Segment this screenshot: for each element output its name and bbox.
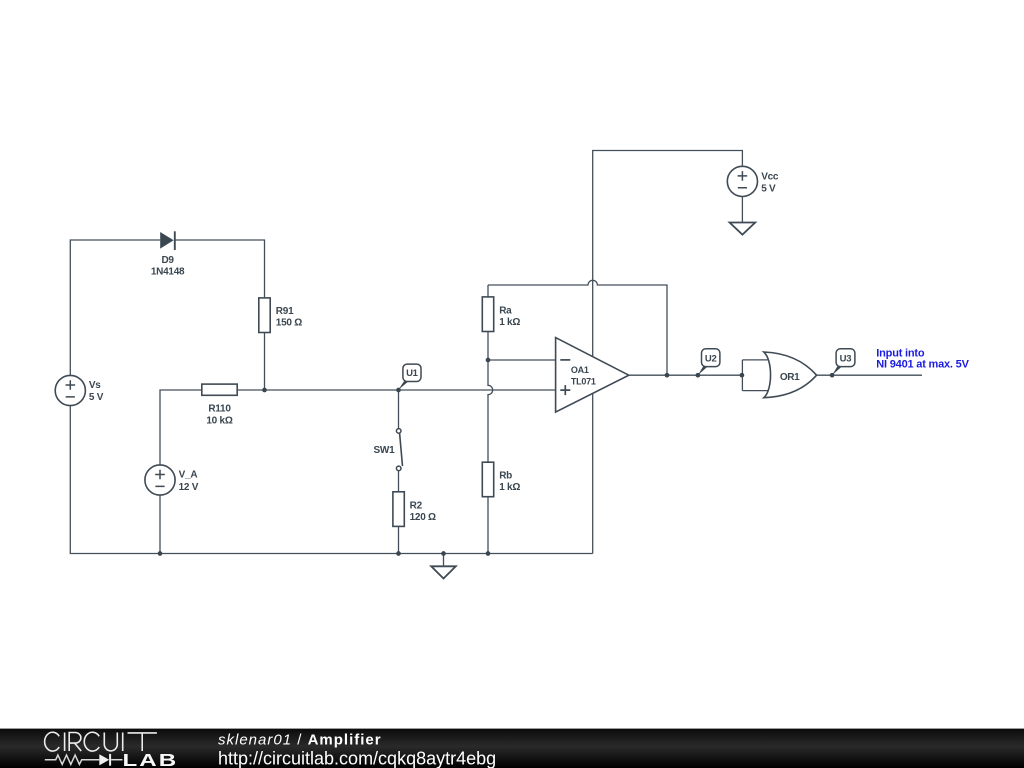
svg-text:1N4148: 1N4148	[151, 267, 185, 278]
svg-text:http://circuitlab.com/cqkq8ayt: http://circuitlab.com/cqkq8aytr4ebg	[218, 749, 496, 768]
svg-text:1 kΩ: 1 kΩ	[499, 482, 520, 493]
svg-text:12 V: 12 V	[179, 482, 199, 493]
svg-text:U1: U1	[406, 368, 419, 379]
svg-text:Vcc: Vcc	[761, 171, 779, 182]
svg-text:OR1: OR1	[780, 372, 800, 383]
svg-text:150 Ω: 150 Ω	[276, 318, 302, 329]
svg-text:1 kΩ: 1 kΩ	[499, 317, 520, 328]
svg-text:U2: U2	[705, 354, 717, 365]
svg-text:OA1: OA1	[571, 365, 589, 375]
svg-text:Input into: Input into	[876, 347, 925, 359]
svg-text:Rb: Rb	[499, 471, 512, 482]
svg-text:5 V: 5 V	[761, 184, 776, 195]
svg-text:Vs: Vs	[89, 380, 101, 391]
svg-text:SW1: SW1	[373, 445, 395, 456]
svg-text:R2: R2	[410, 500, 423, 511]
svg-text:U3: U3	[840, 354, 852, 365]
svg-text:R91: R91	[276, 306, 294, 317]
svg-text:5 V: 5 V	[89, 392, 104, 403]
svg-text:10 kΩ: 10 kΩ	[206, 415, 232, 426]
svg-text:LAB: LAB	[123, 750, 179, 768]
svg-text:V_A: V_A	[179, 469, 198, 480]
svg-text:NI 9401 at max. 5V: NI 9401 at max. 5V	[876, 359, 969, 371]
svg-text:TL071: TL071	[571, 377, 596, 387]
svg-text:120 Ω: 120 Ω	[410, 512, 436, 523]
svg-text:sklenar01 / Amplifier: sklenar01 / Amplifier	[218, 732, 382, 749]
svg-text:R110: R110	[208, 404, 231, 415]
svg-text:Ra: Ra	[499, 305, 512, 316]
svg-text:D9: D9	[161, 255, 174, 266]
